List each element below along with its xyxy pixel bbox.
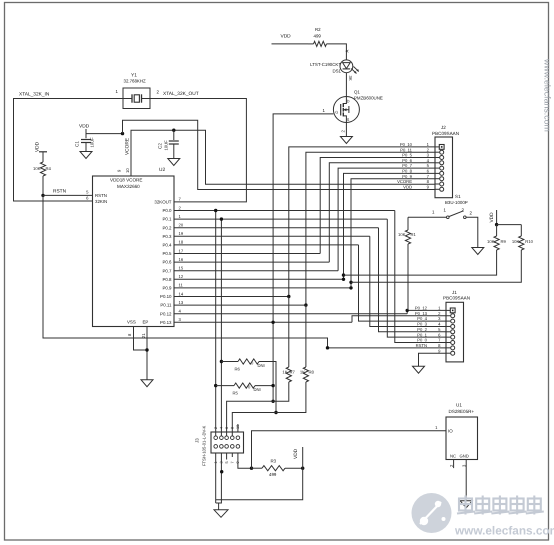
wire P0.6 [174, 261, 329, 263]
svg-text:PBC09SAAN: PBC09SAAN [443, 296, 470, 301]
svg-text:P0_0: P0_0 [417, 338, 427, 343]
junction R3 right [301, 467, 304, 470]
pin 4 J3 [220, 436, 224, 440]
wire J2 pin7 P0_9 [351, 179, 435, 288]
pin 2 J2 [440, 150, 444, 154]
svg-text:R9: R9 [501, 239, 507, 244]
pin 8 J2 [440, 182, 444, 186]
svg-text:P0.1: P0.1 [162, 217, 172, 222]
svg-text:R8: R8 [309, 370, 315, 375]
svg-text:A: A [345, 50, 350, 53]
wire P0.3 [174, 235, 370, 237]
svg-text:15: 15 [179, 266, 184, 271]
svg-text:DS28E05R+: DS28E05R+ [449, 409, 475, 414]
wire LED to Q1 [345, 73, 347, 97]
wire XTAL_32K_IN [14, 99, 124, 202]
svg-text:14: 14 [179, 291, 184, 296]
wire J3 grounds [215, 453, 217, 503]
svg-text:VDD: VDD [293, 448, 299, 459]
svg-text:10K: 10K [487, 239, 495, 244]
wire P0.12 [174, 313, 407, 315]
pin 8 J1 [451, 346, 455, 350]
svg-text:P0.8: P0.8 [162, 277, 172, 282]
svg-text:J3: J3 [195, 438, 200, 443]
svg-text:10K: 10K [512, 239, 520, 244]
svg-text:P0.4: P0.4 [162, 243, 172, 248]
pin 1 J1 (square) [450, 308, 455, 313]
svg-text:P0.7: P0.7 [162, 268, 172, 273]
wire J2 pin3 P0_5 [320, 158, 435, 254]
junction R6 [220, 360, 223, 363]
pin 7 J1 [451, 341, 455, 345]
wire P0.0 drop to R5/J3 pin1 [215, 211, 217, 438]
ground J3 [214, 510, 228, 518]
junction RSTN [41, 194, 44, 197]
wire J3 pin8 stub [231, 453, 233, 457]
svg-text:R3: R3 [271, 459, 277, 464]
svg-text:18: 18 [179, 240, 184, 245]
pin 1 J3 [214, 445, 218, 449]
svg-text:R1: R1 [411, 232, 417, 237]
svg-text:32KOUT: 32KOUT [154, 200, 171, 205]
wire VDD to R10 [497, 224, 522, 226]
svg-text:16: 16 [179, 257, 184, 262]
wire J3 pin10 to R3 [238, 453, 252, 468]
wire IO rail [252, 431, 447, 469]
svg-text:10K: 10K [33, 166, 41, 171]
wire RSTN loop to J1 pin8 [43, 195, 446, 347]
svg-text:P0.2: P0.2 [162, 225, 172, 230]
svg-text:3K: 3K [348, 76, 353, 81]
ground S1 [472, 248, 484, 255]
pin 3 J3 [220, 445, 224, 449]
wire R7 bottom [227, 382, 289, 438]
svg-text:21: 21 [141, 333, 146, 338]
wire VDD rail to J2 pin9 [123, 120, 436, 189]
pin 5 J2 [440, 166, 444, 170]
wire J2 pin5 P0_7 [338, 168, 435, 271]
svg-text:S1: S1 [455, 194, 461, 199]
wire P0.1 drop to R6/J3 pin3 [220, 219, 222, 438]
svg-text:J1: J1 [452, 290, 457, 295]
wire R5 to P0.13 rail [255, 385, 273, 387]
ground C1 [80, 152, 92, 159]
svg-text:RSTN: RSTN [53, 189, 67, 195]
svg-text:499: 499 [269, 472, 277, 477]
svg-text:12: 12 [179, 274, 184, 279]
wire P0.2 to J1 pin5 [379, 228, 447, 332]
pin 6 J1 [451, 335, 455, 339]
wire P0.12 to J1 pin1 [407, 310, 446, 313]
svg-text:P0.6: P0.6 [162, 260, 172, 265]
wire R10 to P0_9 [351, 250, 521, 282]
wire R9 to P0_8 [344, 250, 497, 275]
svg-text:10: 10 [125, 168, 130, 173]
svg-text:R5: R5 [233, 391, 239, 396]
svg-text:R2: R2 [315, 27, 321, 32]
wire VCORE [131, 130, 435, 184]
svg-text:P0_10: P0_10 [400, 142, 413, 147]
wire J3 pin6 stub [226, 453, 228, 460]
ground J1 [413, 366, 425, 373]
svg-text:P0_2: P0_2 [417, 327, 427, 332]
svg-text:17: 17 [179, 248, 184, 253]
wire P0.10 [174, 296, 289, 298]
svg-text:6: 6 [225, 427, 229, 429]
svg-text:P0.11: P0.11 [160, 303, 172, 308]
pin 3 J2 [440, 156, 444, 160]
svg-text:P0_3: P0_3 [417, 322, 427, 327]
svg-text:P0_5: P0_5 [402, 153, 412, 158]
svg-text:J2: J2 [441, 125, 446, 130]
svg-text:8: 8 [231, 427, 235, 429]
svg-text:P0.10: P0.10 [160, 294, 172, 299]
ground C2 [168, 159, 180, 166]
svg-text:P0.5: P0.5 [162, 251, 172, 256]
wire P0.3 to J1 pin4 [370, 236, 446, 326]
svg-text:P0_11: P0_11 [400, 147, 412, 152]
wire R6 to R8 rail [259, 362, 276, 413]
svg-text:P0_6: P0_6 [402, 158, 412, 163]
ground EP [141, 380, 153, 387]
svg-text:VDD: VDD [489, 212, 495, 223]
svg-text:P0.3: P0.3 [162, 234, 172, 239]
wire P0.1 to J1 pin6 [387, 219, 446, 337]
wire J2 pin2 P0_11 [306, 152, 435, 305]
svg-text:P0.0: P0.0 [162, 208, 172, 213]
pin 9 J1 [451, 351, 455, 355]
svg-text:D: D [347, 99, 350, 103]
svg-text:PMZB600UNE: PMZB600UNE [354, 95, 383, 100]
wire P0.13 [174, 321, 352, 323]
junction R3 left [250, 467, 253, 470]
pin 9 J2 [440, 187, 444, 191]
svg-text:7: 7 [231, 461, 235, 463]
wire XTAL_32K_OUT to 32KOUT [150, 99, 246, 202]
wire P0.7 [174, 270, 338, 272]
wire J1 pin9 to ground [419, 353, 447, 366]
pin 4 J2 [440, 161, 444, 165]
svg-text:www.elecfans.com: www.elecfans.com [454, 524, 554, 538]
watermark chinese text 电子发烧友 [457, 496, 475, 515]
wire P0.8 [174, 278, 344, 280]
pin 8 J3 [231, 436, 235, 440]
svg-text:MAX32660: MAX32660 [117, 184, 140, 189]
svg-text:10UF: 10UF [164, 140, 169, 151]
svg-text:P0.12: P0.12 [160, 311, 172, 316]
svg-text:GND: GND [460, 454, 469, 459]
pin 2 J1 [451, 314, 455, 318]
pin 10 J3 [236, 436, 240, 440]
svg-text:C1: C1 [75, 141, 80, 147]
svg-text:VCORE: VCORE [397, 179, 412, 184]
wire P0.13 / LED gate vertical [273, 114, 333, 401]
pin 7 J2 [440, 177, 444, 181]
wire R3 loop [216, 468, 303, 500]
svg-text:B3U-1000P: B3U-1000P [445, 200, 468, 205]
wire VSS/EP to ground [134, 327, 148, 351]
svg-text:VSS: VSS [127, 320, 136, 325]
svg-text:U1: U1 [456, 403, 462, 408]
pin 5 J3 [225, 445, 229, 449]
svg-text:VDD: VDD [281, 34, 292, 40]
svg-text:10K: 10K [398, 232, 406, 237]
wire RSTN to U2 [43, 194, 93, 196]
wire R8 bottom [232, 382, 306, 438]
svg-text:VDD: VDD [403, 184, 412, 189]
wire P0.1 [174, 218, 387, 220]
svg-text:R10: R10 [525, 239, 533, 244]
svg-text:P0.13: P0.13 [160, 320, 172, 325]
svg-text:Q1: Q1 [354, 90, 360, 95]
watermark logo circle [412, 493, 452, 533]
svg-text:499: 499 [314, 34, 322, 39]
wire R2 to LED [327, 44, 347, 60]
wire P0.2 [174, 227, 379, 229]
svg-text:13: 13 [179, 300, 184, 305]
svg-text:G: G [335, 111, 338, 115]
svg-text:VCORE: VCORE [125, 138, 131, 155]
svg-text:P0_9: P0_9 [402, 174, 412, 179]
svg-text:11: 11 [179, 283, 184, 288]
wire P0.11 [174, 304, 306, 306]
svg-text:P0_1: P0_1 [417, 332, 427, 337]
wire VDD to U2 pin9 [86, 133, 123, 135]
pin 7 J3 [231, 445, 235, 449]
svg-text:FTSH-105-01-L-DV-K: FTSH-105-01-L-DV-K [202, 426, 207, 466]
wire J2 pin1 P0_10 [289, 147, 435, 297]
svg-text:R6: R6 [235, 367, 241, 372]
pin 4 J1 [451, 324, 455, 328]
svg-text:P0.9: P0.9 [162, 286, 172, 291]
junction VDD/VDD18 [121, 132, 124, 135]
svg-text:RSTN: RSTN [95, 193, 107, 198]
wire P0.0 [174, 210, 395, 212]
wire J3 pin9 stub [237, 424, 239, 432]
svg-text:RSTN: RSTN [416, 343, 427, 348]
pin 6 J3 [225, 436, 229, 440]
svg-text:5: 5 [225, 461, 229, 463]
svg-text:P0_12: P0_12 [415, 306, 428, 311]
svg-text:C2: C2 [158, 143, 163, 149]
svg-text:P0_7: P0_7 [402, 163, 412, 168]
svg-text:VDD: VDD [35, 141, 41, 152]
svg-text:32.768KHZ: 32.768KHZ [124, 79, 147, 84]
wire P0.13 to J1 pin2 [352, 316, 446, 323]
svg-text:XTAL_32K_IN: XTAL_32K_IN [19, 91, 50, 97]
pin 1 J2 (square) [439, 145, 444, 150]
svg-text:DNI: DNI [258, 363, 265, 368]
ground U1 [460, 501, 472, 508]
junction R5 [214, 384, 217, 387]
wire P0.0 to J1 pin7 [395, 211, 446, 343]
svg-text:PBC09SAAN: PBC09SAAN [432, 131, 459, 136]
svg-text:U2: U2 [159, 167, 165, 173]
svg-text:2: 2 [214, 427, 218, 429]
wire U1 GND [465, 460, 467, 501]
svg-text:19: 19 [179, 231, 184, 236]
op-amp U2 MAX32660 [93, 176, 175, 327]
pin 3 J1 [451, 319, 455, 323]
svg-text:EP: EP [143, 320, 149, 325]
svg-text:DNI: DNI [254, 387, 261, 392]
svg-text:32KIN: 32KIN [95, 199, 107, 204]
svg-text:www.elecfans.com: www.elecfans.com [543, 58, 553, 132]
wire J2 pin4 P0_6 [329, 163, 435, 262]
wire P0.4 to J1 pin3 [359, 245, 447, 321]
svg-text:P0_13: P0_13 [415, 311, 428, 316]
svg-text:IO: IO [448, 429, 453, 434]
svg-text:4: 4 [220, 427, 224, 429]
pin 6 J2 [440, 171, 444, 175]
svg-text:LTST-C190CKT: LTST-C190CKT [310, 62, 341, 67]
wire P0.9 [174, 287, 351, 289]
wire P0.5 [174, 253, 320, 255]
pin 2 J3 [214, 436, 218, 440]
wire P0.4 [174, 244, 359, 246]
svg-text:P0_8: P0_8 [402, 169, 412, 174]
svg-text:VDD: VDD [79, 124, 90, 130]
pin 5 J1 [451, 330, 455, 334]
pin 9 J3 [236, 445, 240, 449]
svg-text:P0_4: P0_4 [417, 316, 427, 321]
svg-text:NC: NC [450, 454, 456, 459]
svg-text:XTAL_32K_OUT: XTAL_32K_OUT [163, 91, 199, 97]
svg-text:VDD18 VCORE: VDD18 VCORE [110, 178, 142, 183]
svg-text:20: 20 [179, 223, 184, 228]
wire Q1 source to ground [345, 123, 347, 137]
ground Q1 [340, 137, 352, 144]
wire J2 pin6 P0_8 [344, 173, 436, 279]
junction VDD R9 [495, 223, 498, 226]
svg-text:S: S [347, 118, 350, 122]
junction C2 [172, 129, 175, 132]
